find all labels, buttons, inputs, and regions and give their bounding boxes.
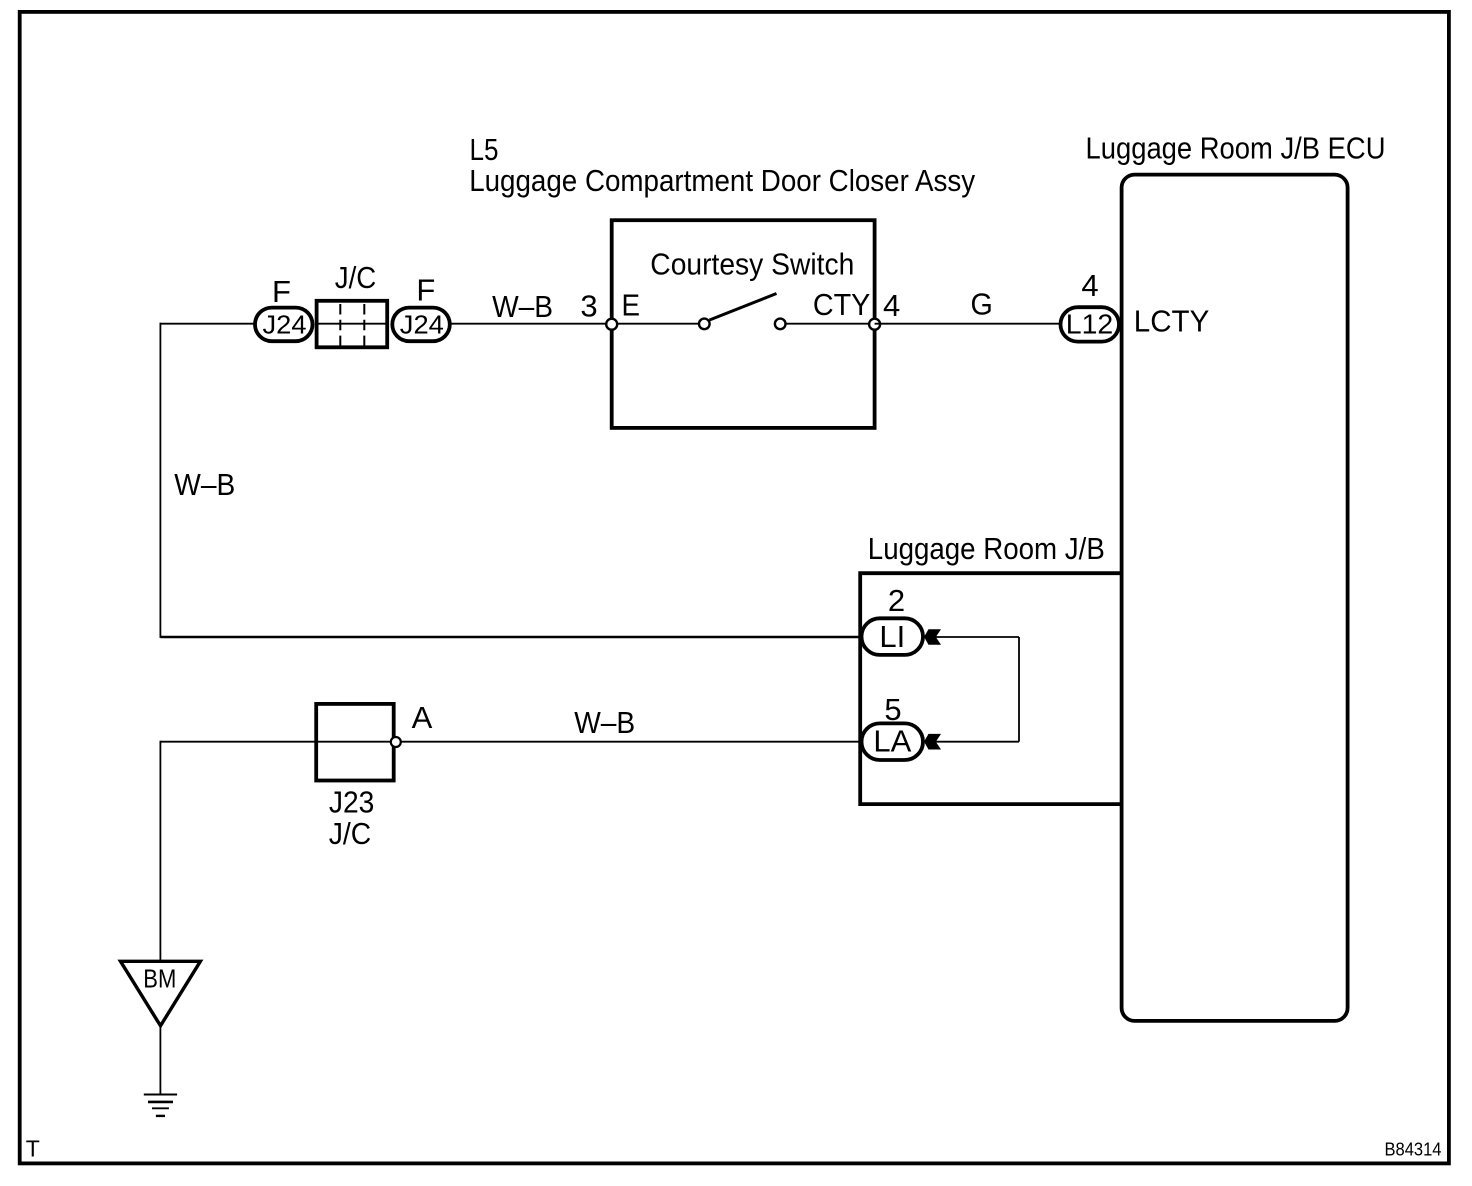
svg-text:G: G — [970, 287, 992, 322]
svg-text:W–B: W–B — [492, 289, 553, 324]
svg-text:J24: J24 — [400, 310, 444, 340]
svg-text:Luggage Compartment Door Close: Luggage Compartment Door Closer Assy — [469, 163, 975, 198]
wire W-B left vertical (J24 down to LI wire) — [159, 323, 161, 638]
wire W-B lower: left vertical to LA — [160, 741, 861, 743]
svg-text:J/C: J/C — [329, 816, 372, 851]
wire inside switch: right contact to CTY — [780, 323, 875, 325]
switch contact left — [699, 319, 710, 330]
svg-text:4: 4 — [1081, 268, 1098, 303]
switch blade — [710, 294, 777, 321]
arrow into LI — [924, 629, 941, 645]
svg-text:LCTY: LCTY — [1134, 304, 1210, 339]
svg-text:W–B: W–B — [174, 467, 235, 502]
svg-text:L12: L12 — [1066, 308, 1114, 339]
connector J24 (left) — [255, 308, 313, 342]
ground marker BM triangle — [121, 961, 201, 1026]
node E (pin 3) — [606, 319, 617, 330]
wire: LI arrow to internal node — [934, 636, 1019, 638]
wire W-B: left vertical to LI — [160, 636, 861, 638]
node CTY (pin 4) — [869, 319, 880, 330]
svg-text:L5: L5 — [470, 132, 499, 167]
node A — [391, 737, 401, 747]
svg-text:5: 5 — [884, 692, 901, 727]
svg-text:Luggage Room J/B ECU: Luggage Room J/B ECU — [1086, 131, 1386, 166]
svg-text:2: 2 — [888, 583, 905, 618]
svg-text:LI: LI — [879, 619, 905, 654]
svg-text:W–B: W–B — [574, 705, 635, 740]
svg-text:3: 3 — [580, 288, 597, 323]
arrow into LA — [924, 734, 941, 750]
svg-text:F: F — [416, 273, 435, 308]
wire: lower vertical to BM triangle — [159, 741, 161, 962]
wire: BM triangle to ground symbol — [159, 1027, 161, 1095]
switch contact right — [775, 319, 786, 330]
connector LI (pin 2) — [862, 618, 924, 655]
svg-text:T: T — [26, 1136, 40, 1162]
Luggage Room J/B box — [860, 573, 1121, 804]
svg-text:LA: LA — [873, 724, 911, 759]
wire: internal vertical (LI to LA) — [1018, 637, 1020, 742]
svg-text:J/C: J/C — [335, 260, 377, 295]
svg-text:BM: BM — [143, 964, 176, 994]
wire W-B horizontal: left vertical to connector J24 — [160, 323, 257, 325]
svg-text:B84314: B84314 — [1385, 1139, 1442, 1159]
svg-text:Courtesy Switch: Courtesy Switch — [650, 247, 854, 282]
wire inside switch: E to left contact — [612, 323, 704, 325]
ECU box (Luggage Room J/B ECU) — [1122, 175, 1348, 1021]
component L5 Courtesy Switch box — [612, 220, 875, 428]
svg-text:J23: J23 — [329, 785, 375, 820]
svg-text:J24: J24 — [263, 310, 307, 340]
svg-text:E: E — [622, 288, 641, 323]
svg-text:A: A — [412, 700, 433, 735]
junction block J/C (top) — [316, 301, 388, 348]
wire G: switch to L12 — [875, 323, 1060, 325]
wire: internal to LA arrow — [934, 741, 1019, 743]
wire W-B: J24 to courtesy switch pin E — [449, 323, 612, 325]
svg-text:Luggage Room J/B: Luggage Room J/B — [868, 531, 1105, 566]
connector L12 — [1061, 307, 1120, 341]
connector J24 (right) — [392, 308, 450, 342]
junction block J23 — [316, 704, 394, 781]
svg-text:4: 4 — [883, 288, 900, 323]
svg-text:CTY: CTY — [813, 287, 871, 322]
svg-text:F: F — [272, 274, 291, 309]
connector LA (pin 5) — [862, 723, 924, 760]
ground symbol — [144, 1095, 177, 1116]
